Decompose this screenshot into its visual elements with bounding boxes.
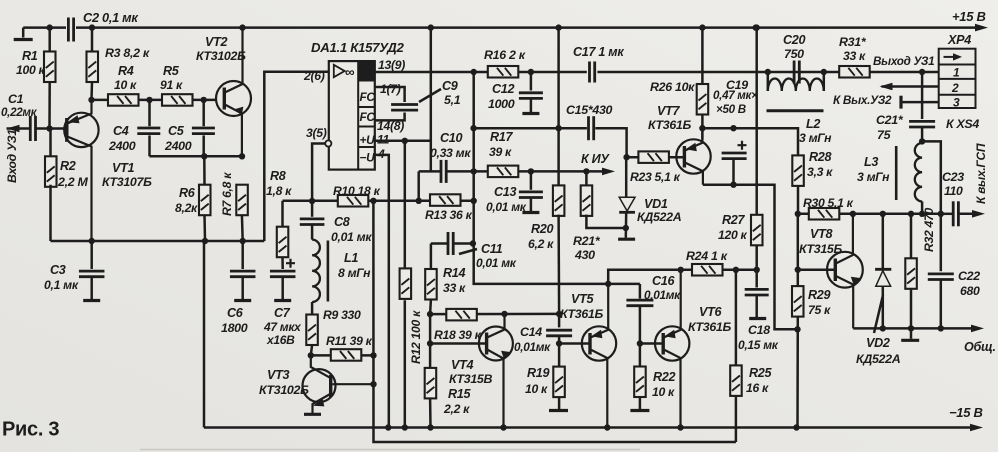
node junction R11/VT3 base line	[370, 352, 376, 358]
inductor L2 winding	[768, 79, 824, 92]
svg-text:R30 5,1 к: R30 5,1 к	[803, 196, 854, 210]
resistor R32	[905, 258, 917, 289]
transistor VT2	[216, 28, 251, 157]
wire R15 bottom stem	[429, 398, 432, 427]
resistor R7	[236, 185, 248, 216]
svg-text:R22: R22	[653, 370, 675, 384]
wire top +15V rail	[76, 26, 979, 29]
svg-text:10 к: 10 к	[652, 385, 675, 399]
node junction R32 top	[908, 211, 914, 217]
node junction tank right	[821, 69, 827, 75]
node junction R6 bottom bus	[202, 238, 208, 244]
wire common bar stem	[910, 328, 913, 338]
svg-text:FC: FC	[360, 90, 376, 104]
node +15V rail arrow	[975, 24, 988, 32]
resistor R2	[45, 156, 57, 187]
node Общ arrow	[971, 325, 984, 333]
wire +15 feed to pin 11	[430, 28, 433, 172]
resistor R16	[488, 66, 519, 78]
svg-text:С17 1 мк: С17 1 мк	[573, 45, 624, 59]
node junction R13/C10 left	[416, 198, 422, 204]
resistor R12	[400, 268, 412, 299]
capacitor C11	[448, 232, 453, 255]
svg-text:С14: С14	[520, 325, 542, 339]
wire C13 top stem	[530, 171, 533, 189]
wire C14 top stem	[558, 314, 561, 328]
wire C18 top stem	[755, 270, 758, 288]
node junction pin11/R12	[402, 138, 408, 144]
node -15V rail arrow	[970, 424, 983, 432]
svg-text:R2: R2	[60, 159, 76, 173]
svg-text:0,33 мк: 0,33 мк	[430, 146, 471, 160]
node К Вых.УЗ2 arrow	[880, 83, 893, 91]
node junction C10/vertical feed	[471, 168, 477, 174]
svg-text:VT7: VT7	[657, 104, 680, 118]
node junction VT4 collector	[501, 311, 507, 317]
wire C6 top stem	[241, 241, 244, 269]
node junction R9/R11/VT3 collector	[308, 352, 314, 358]
resistor R21	[581, 185, 593, 216]
svg-text:1,8 к: 1,8 к	[266, 184, 292, 198]
capacitor C3	[79, 271, 105, 277]
node junction output/feed	[471, 69, 477, 75]
resistor R19	[553, 367, 565, 398]
svg-text:R28: R28	[809, 150, 831, 164]
wire R7 bottom stem	[241, 215, 244, 241]
node junction VT5 emitter rail	[604, 424, 610, 430]
node junction VT8 base tap	[795, 267, 801, 273]
node input arrow Вход УЗ1	[7, 125, 20, 132]
node junction R1 top rail	[47, 24, 53, 30]
wire C21 bottom stem	[921, 127, 924, 143]
wire VD1 cathode down	[625, 212, 628, 237]
svg-text:КТ3102Б: КТ3102Б	[259, 383, 309, 397]
svg-text:0,01 мк: 0,01 мк	[331, 230, 372, 244]
node junction +15 feed rail	[428, 24, 434, 30]
node junction VD2 bottom	[880, 325, 886, 331]
node junction feed/C15wire	[470, 125, 476, 131]
wire C23 to output arrow	[960, 213, 978, 216]
node junction C19 top	[730, 125, 736, 131]
resistor R11	[331, 349, 362, 361]
svg-text:R24 1 к: R24 1 к	[686, 249, 728, 263]
capacitor C7 plus sign	[286, 259, 295, 268]
svg-text:R21*: R21*	[573, 234, 601, 248]
capacitor C8	[300, 219, 325, 225]
capacitor C20	[794, 61, 799, 84]
wire R3 top stem	[91, 28, 94, 52]
transistor VT1	[64, 100, 98, 241]
capacitor C6	[230, 271, 256, 277]
svg-text:С6: С6	[227, 306, 244, 320]
wire C4 bottom stem	[148, 135, 151, 156]
svg-text:0,01мк: 0,01мк	[514, 340, 551, 354]
svg-text:110: 110	[944, 184, 963, 198]
node junction R24/R25	[733, 267, 739, 273]
resistor R4	[108, 94, 139, 106]
node junction R4/R5/C4	[146, 97, 152, 103]
svg-text:91 к: 91 к	[160, 78, 183, 92]
node junction R1/R2/C1	[46, 125, 52, 131]
svg-text:0,1 мк: 0,1 мк	[44, 278, 79, 292]
wire R23 feed	[627, 156, 684, 159]
svg-text:VT1: VT1	[112, 161, 134, 175]
svg-text:С1: С1	[8, 92, 24, 106]
capacitor C5	[192, 128, 215, 134]
node junction VT1 collector / C3	[89, 238, 95, 244]
wire R12 bottom	[404, 300, 407, 427]
capacitor C19	[722, 153, 747, 159]
svg-text:33 к: 33 к	[443, 281, 466, 295]
svg-text:8 мГн: 8 мГн	[338, 266, 371, 280]
node junction R28/R30	[795, 211, 801, 217]
svg-text:С20: С20	[783, 33, 805, 47]
node junction 3(5)/C8	[309, 198, 315, 204]
svg-text:Рис. 3: Рис. 3	[2, 419, 59, 441]
wire C3 bottom stem	[90, 277, 93, 300]
wire R14 bottom stem	[429, 300, 432, 315]
node junction R21 top	[583, 168, 589, 174]
node junction VT8 collector	[850, 211, 856, 217]
transistor VT4	[479, 314, 513, 428]
wire emitter bus y156.3	[150, 155, 243, 158]
wire R2 top stem	[49, 129, 52, 157]
wire tank right node drop	[823, 72, 826, 91]
wire R25 bottom stem	[735, 396, 738, 442]
svg-text:R29: R29	[808, 288, 830, 302]
wire C16 branch	[639, 284, 642, 299]
wire C8 to L1	[311, 225, 314, 240]
svg-text:8,2к: 8,2к	[175, 201, 198, 215]
node junction R10/VT3 line	[370, 198, 376, 204]
wire input arrow to C1	[7, 127, 30, 130]
svg-text:∞: ∞	[345, 65, 355, 80]
node C3 end bar	[83, 299, 100, 302]
wire C18 bottom stem	[755, 295, 758, 317]
diode VD1 triangle	[619, 197, 635, 211]
inductor L1 core bar	[327, 241, 330, 302]
svg-text:С4: С4	[113, 124, 129, 138]
wire op-amp pin 1(7) to C9	[375, 87, 405, 102]
transistor VT6	[655, 270, 689, 428]
svg-text:R7 6,8 к: R7 6,8 к	[220, 172, 234, 216]
node junction C22 bottom	[938, 325, 944, 331]
wire C12 bottom stem	[530, 98, 533, 112]
node junction R26 rail	[699, 24, 705, 30]
node junction tank left	[765, 69, 771, 75]
svg-text:33 к: 33 к	[843, 49, 866, 63]
wire R1 bottom stem	[48, 82, 51, 129]
wire C3 top stem	[90, 241, 93, 269]
resistor R29	[792, 286, 804, 317]
node junction C15/R23/VD1	[623, 154, 629, 160]
wire C21 node to C23 branch	[922, 141, 941, 213]
node R22 end bar	[630, 409, 649, 412]
node junction VT5 collector	[605, 281, 611, 287]
wire R27 feed from rail	[755, 28, 758, 215]
node junction VT4 emitter rail	[500, 424, 506, 430]
node junction R15 rail	[427, 424, 433, 430]
svg-text:2: 2	[951, 81, 959, 95]
wire C11 right segment	[453, 242, 473, 245]
wire tank left node drop	[767, 72, 770, 91]
resistor R31	[839, 66, 870, 78]
wire R32 bottom stem	[910, 289, 913, 329]
svg-text:0,01мк: 0,01мк	[644, 288, 681, 302]
node C7 end bar	[274, 299, 291, 302]
wire XP4 pin2 К Вых.УЗ2	[882, 85, 939, 88]
svg-text:R8: R8	[270, 169, 286, 183]
svg-text:R6: R6	[179, 186, 196, 200]
wire C10/R17 bus y171.4	[419, 170, 441, 173]
capacitor C7	[270, 271, 296, 277]
capacitor C21	[909, 121, 935, 127]
svg-text:R31*: R31*	[839, 35, 867, 49]
op-amp DA1.1 K157UD2 body	[329, 61, 375, 170]
svg-text:С18: С18	[748, 323, 770, 337]
resistor R5	[162, 94, 193, 106]
svg-text:100 к: 100 к	[16, 63, 46, 77]
resistor R14	[425, 269, 437, 300]
wire op-amp pin 2(6) feedback	[264, 72, 329, 241]
svg-text:Выход УЗ1: Выход УЗ1	[873, 55, 934, 68]
node junction output/XP4 branch	[919, 69, 925, 75]
capacitor C15	[589, 116, 594, 140]
wire C8 top stem	[311, 201, 314, 217]
svg-text:КТ3107Б: КТ3107Б	[102, 175, 152, 189]
inductor L1 winding	[312, 240, 320, 302]
connector XP4 body	[939, 49, 976, 108]
diode VD2 cathode bar	[875, 268, 891, 271]
wire XP4 pin3 К XS4	[902, 101, 939, 104]
svg-text:430: 430	[574, 248, 595, 262]
svg-text:2400: 2400	[108, 139, 136, 153]
node junction VT5 base tap	[556, 340, 562, 346]
resistor R10	[338, 195, 369, 207]
resistor R25	[730, 365, 742, 396]
svg-text:К вых.ГСП: К вых.ГСП	[974, 143, 988, 204]
capacitor C13	[519, 192, 543, 198]
node junction VT1 emitter / R3 / R4	[88, 97, 94, 103]
node junction R32 bottom	[908, 325, 914, 331]
svg-text:R20: R20	[531, 222, 553, 236]
resistor R22	[634, 367, 646, 398]
wire R29 bottom stem	[796, 317, 799, 428]
svg-text:VT4: VT4	[451, 358, 473, 372]
svg-text:L2: L2	[806, 117, 820, 131]
capacitor C12	[519, 93, 543, 99]
wire C6 bottom stem	[241, 277, 244, 300]
capacitor C4	[137, 128, 160, 134]
svg-text:2,2 к: 2,2 к	[443, 402, 470, 416]
wire output feed vertical x473.7	[474, 72, 640, 284]
svg-text:R25: R25	[749, 366, 772, 380]
node common chassis bar	[901, 339, 919, 342]
transistor VT3	[303, 355, 374, 413]
svg-text:−15 В: −15 В	[949, 405, 983, 420]
wire C12 top stem	[530, 72, 533, 91]
wire output after C17	[597, 71, 938, 74]
node junction R3 top rail	[89, 24, 95, 30]
resistor R17	[488, 166, 519, 178]
svg-text:КТ315В: КТ315В	[449, 372, 493, 386]
wire R1 top stem	[48, 28, 51, 52]
transistor VT5	[582, 284, 616, 428]
resistor R30	[809, 208, 840, 220]
wire VD1 anode line	[625, 157, 628, 197]
wire common bus y328.4	[853, 327, 977, 330]
svg-text:R4: R4	[118, 64, 134, 78]
wire R27 bottom stem	[755, 245, 758, 269]
capacitor C1	[30, 116, 35, 141]
node К ИУ arrow	[602, 168, 615, 176]
wire R32 top stem	[910, 214, 913, 259]
wire L1 to R9	[311, 302, 314, 315]
wire R28 box stems	[797, 154, 800, 157]
node input chassis bar	[14, 38, 33, 41]
node junction pin4 line rail	[385, 424, 391, 430]
wire R21 top stem	[585, 171, 588, 185]
svg-text:R19: R19	[527, 366, 549, 380]
inductor L2 core bar	[767, 109, 824, 112]
node junction VT7 emitter/C19	[699, 125, 705, 131]
wire C9 leader line	[419, 89, 441, 102]
capacitor C18	[745, 289, 769, 295]
wire C21 top stem	[921, 72, 924, 119]
svg-text:+U: +U	[360, 133, 376, 147]
svg-text:КТ361Б: КТ361Б	[560, 307, 604, 321]
node К вых.ГСП arrow	[972, 210, 985, 218]
wire VT5 collector riser	[608, 270, 757, 284]
svg-text:КТ361Б: КТ361Б	[688, 320, 732, 334]
svg-text:К ИУ: К ИУ	[581, 152, 610, 166]
svg-text:С9: С9	[442, 79, 458, 93]
wire R11 bus	[311, 354, 374, 357]
wire C23 left segment	[941, 213, 955, 216]
wire C10 right segment	[446, 170, 609, 173]
resistor R9	[306, 315, 318, 346]
wire bottom -15V rail	[204, 426, 975, 429]
capacitor C19 plus sign	[738, 141, 747, 150]
svg-text:0,01 мк: 0,01 мк	[476, 256, 517, 270]
wire C9 to pin 14(8)	[375, 113, 405, 121]
resistor R18	[446, 309, 477, 321]
svg-text:VD1: VD1	[644, 197, 668, 211]
svg-text:16 к: 16 к	[746, 381, 769, 395]
svg-text:С15*430: С15*430	[566, 103, 613, 117]
svg-text:С16: С16	[652, 274, 675, 288]
svg-text:С22: С22	[958, 269, 980, 283]
wire VT8 base	[798, 268, 834, 271]
svg-text:−U: −U	[360, 151, 376, 165]
node junction VD2 top	[880, 211, 886, 217]
svg-text:1: 1	[953, 66, 960, 80]
node junction C15/R20 line	[555, 125, 561, 131]
wire R8 top stem	[281, 201, 284, 227]
diode VD2 triangle	[876, 271, 891, 287]
svg-text:ХР4: ХР4	[947, 33, 971, 47]
wire R14-R15 link	[429, 314, 432, 368]
svg-text:120 к: 120 к	[718, 228, 748, 242]
svg-text:VT5: VT5	[571, 292, 594, 306]
wire op-amp pin 4 -U	[375, 155, 389, 428]
wire C13 bottom stem	[530, 198, 533, 212]
wire C19 bottom stem	[732, 159, 735, 185]
node junction VT6 collector	[678, 267, 684, 273]
svg-text:10 к: 10 к	[114, 78, 137, 92]
wire R6 bottom stem	[203, 215, 206, 241]
capacitor C17	[590, 62, 595, 83]
node junction R14/R18	[427, 311, 433, 317]
svg-text:×50 В: ×50 В	[716, 103, 746, 116]
node junction R24/R27/C18	[754, 267, 760, 273]
node junction L3 bottom	[919, 211, 925, 217]
svg-text:L3: L3	[864, 155, 878, 169]
svg-text:3,3 к: 3,3 к	[807, 165, 833, 179]
node R19 end bar	[549, 409, 568, 412]
svg-text:0,15 мк: 0,15 мк	[738, 338, 779, 352]
wire R20 to C14	[557, 215, 560, 314]
wire top +15V rail left of C2	[23, 26, 66, 29]
svg-text:680: 680	[960, 284, 980, 298]
wire R28 to R30 junction	[797, 186, 800, 214]
wire R25 top stem	[735, 270, 738, 366]
svg-text:С7: С7	[274, 306, 291, 320]
wire R3 bottom stem	[90, 82, 93, 100]
svg-text:75 к: 75 к	[808, 303, 831, 317]
node junction VT3 base	[370, 381, 376, 387]
svg-text:R17: R17	[490, 130, 513, 144]
resistor R20	[553, 185, 565, 216]
svg-text:750: 750	[784, 47, 804, 61]
svg-text:R11 39 к: R11 39 к	[326, 334, 373, 348]
inductor L3 core bar	[895, 146, 898, 200]
node VD1 end bar	[618, 238, 635, 241]
node C13 end bar	[522, 211, 539, 214]
capacitor C23	[953, 201, 958, 226]
svg-text:С8: С8	[334, 215, 350, 229]
svg-text:2400: 2400	[164, 139, 192, 153]
wire R30 bus y213.8	[798, 213, 941, 216]
capacitor C9	[391, 105, 418, 111]
svg-text:3 мГн: 3 мГн	[857, 170, 890, 184]
resistor R24	[692, 264, 723, 276]
wire R21 bottom to VD1	[586, 215, 625, 228]
svg-text:L1: L1	[344, 251, 358, 265]
wire R19 bottom stem	[558, 397, 561, 409]
node scan artifact line	[140, 449, 640, 451]
svg-text:39 к: 39 к	[489, 145, 512, 159]
svg-text:R15: R15	[448, 387, 471, 401]
wire C5 top stem	[202, 100, 205, 126]
wire C14 to R19	[558, 336, 561, 367]
node VT3 emitter bar	[304, 413, 321, 416]
wire VD2 line upper	[882, 214, 885, 269]
svg-text:0,01 мк: 0,01 мк	[486, 200, 527, 214]
node junction VT7 collector line / R29	[794, 326, 800, 332]
wire C7 bottom stem	[281, 277, 284, 300]
svg-text:+15 В: +15 В	[952, 9, 986, 24]
wire VD2 line lower	[882, 286, 885, 328]
resistor R13	[430, 194, 461, 206]
svg-text:С2 0,1 мк: С2 0,1 мк	[83, 10, 138, 25]
svg-text:С5: С5	[168, 124, 185, 138]
svg-text:3: 3	[953, 96, 960, 110]
svg-text:R13 36 к: R13 36 к	[425, 208, 473, 222]
wire VT6 base	[640, 342, 662, 345]
node junction R17/C13	[528, 168, 534, 174]
node junction R16/C12	[528, 69, 534, 75]
